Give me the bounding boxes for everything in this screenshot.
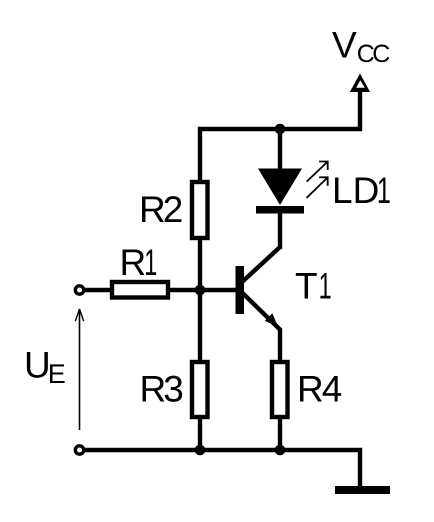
- wire VCC stem: [358, 90, 362, 131]
- terminal input top: [75, 286, 83, 294]
- wire R2 top: [198, 127, 202, 182]
- wire bottom rail: [84, 450, 360, 487]
- svg-text:R3: R3: [140, 369, 184, 410]
- wire collector: [278, 212, 282, 249]
- junction base: [195, 285, 206, 296]
- junction bottom left: [195, 445, 206, 456]
- led LD1: [256, 127, 328, 214]
- junction top: [275, 124, 286, 135]
- svg-text:VCC: VCC: [332, 25, 390, 69]
- wire top rail: [198, 127, 362, 131]
- resistor R2: [192, 182, 208, 238]
- svg-text:R1: R1: [120, 242, 158, 283]
- svg-text:UE: UE: [24, 344, 66, 389]
- svg-text:R4: R4: [297, 369, 342, 410]
- resistor R4: [272, 362, 288, 417]
- arrow UE: [75, 309, 83, 430]
- wire R4 bottom: [278, 417, 282, 450]
- svg-text:LD1: LD1: [332, 170, 391, 211]
- resistor R3: [192, 362, 208, 417]
- supply VCC arrow: [350, 74, 370, 93]
- svg-text:T1: T1: [295, 265, 332, 306]
- wire base column to R3: [198, 290, 202, 362]
- resistor R1: [112, 282, 168, 298]
- terminal input bottom: [75, 446, 83, 454]
- wire R2 bottom: [198, 238, 202, 290]
- wire input to R1: [84, 288, 112, 292]
- transistor T1: [236, 247, 281, 362]
- ground: [335, 486, 390, 494]
- junction bottom right: [275, 445, 286, 456]
- wire R1 to base: [168, 288, 237, 292]
- svg-text:R2: R2: [139, 189, 183, 230]
- wire R3 bottom: [198, 417, 202, 450]
